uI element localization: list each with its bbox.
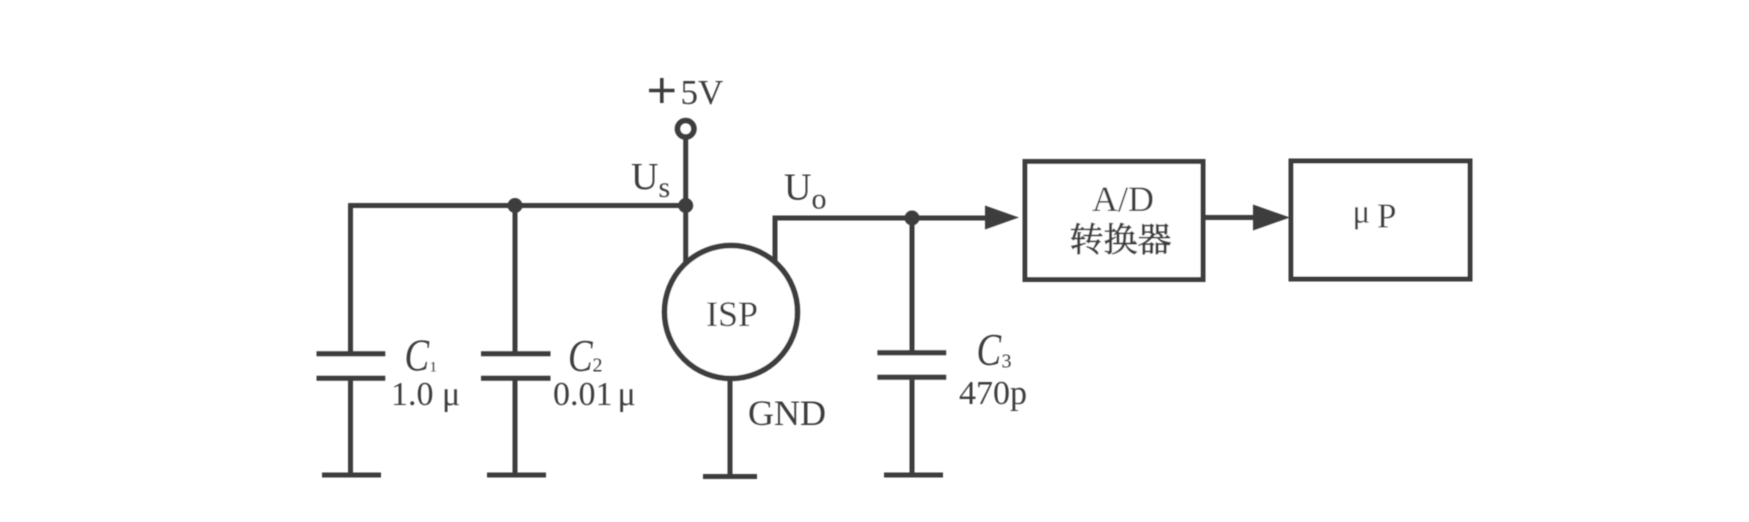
svg-text:C: C	[568, 331, 593, 381]
wire C2 bottom branch	[513, 378, 518, 475]
capacitor C2	[481, 354, 551, 378]
svg-text:A/D: A/D	[1092, 179, 1154, 219]
wire ISP GND	[728, 378, 733, 477]
ground ISP	[703, 474, 757, 479]
svg-text:μ: μ	[1353, 195, 1371, 231]
svg-text:2: 2	[593, 355, 603, 377]
svg-text:Us: Us	[631, 156, 670, 204]
ground C3	[884, 473, 943, 478]
ground C2	[487, 473, 546, 478]
wire +5V terminal down to node Us	[683, 138, 688, 271]
capacitor C1	[317, 354, 386, 378]
svg-text:C: C	[977, 325, 1002, 375]
block A/D converter	[1025, 162, 1203, 280]
node C3 junction dot	[905, 211, 920, 226]
svg-text:1.0 μ: 1.0 μ	[391, 376, 460, 413]
svg-text:GND: GND	[748, 393, 826, 433]
svg-text:P: P	[1377, 197, 1396, 236]
node C2 junction dot	[508, 198, 523, 213]
arrow into uP	[1253, 205, 1290, 231]
ground C1	[322, 473, 381, 478]
ISP device circle	[665, 246, 798, 379]
power terminal +5V	[677, 121, 694, 138]
wire A/D to uP	[1203, 215, 1256, 220]
label +5V	[649, 78, 675, 103]
wire C1 bottom branch	[348, 378, 353, 475]
svg-text:0.01: 0.01	[553, 376, 613, 413]
wire left rail from node Us to C1	[348, 203, 688, 208]
svg-text:μ: μ	[618, 376, 636, 413]
block uP	[1291, 161, 1470, 279]
wire C3 top branch	[910, 216, 915, 353]
wire ISP output riser Uo	[775, 218, 986, 262]
node Us junction dot	[678, 198, 693, 213]
svg-text:3: 3	[1002, 351, 1012, 373]
wire C2 top branch	[513, 204, 518, 354]
capacitor C3	[877, 353, 946, 377]
wire C1 top branch	[348, 204, 353, 354]
svg-text:470p: 470p	[959, 375, 1027, 412]
arrow into A/D converter	[985, 206, 1019, 230]
label CJK converter (zhuan huan qi)	[1071, 223, 1171, 255]
svg-text:C: C	[405, 330, 430, 380]
svg-text:5V: 5V	[681, 73, 724, 112]
svg-text:Uo: Uo	[784, 167, 826, 216]
wire C3 bottom branch	[910, 377, 915, 475]
svg-text:1: 1	[430, 360, 438, 376]
svg-text:ISP: ISP	[706, 294, 758, 334]
